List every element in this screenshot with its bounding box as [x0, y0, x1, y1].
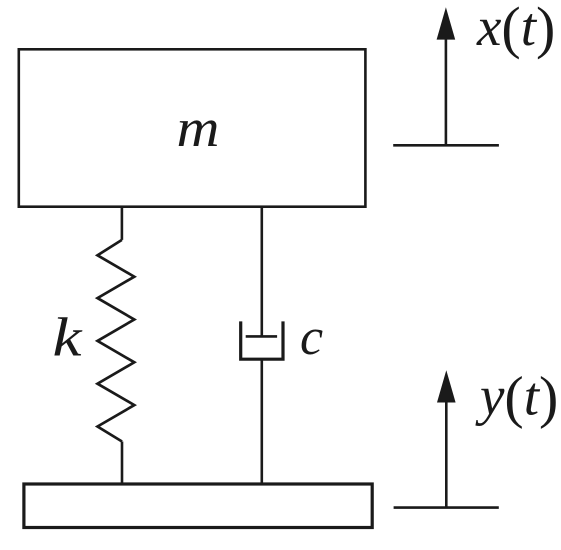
y(t) reference line	[394, 506, 499, 509]
mass block m	[19, 49, 366, 206]
spring k	[98, 240, 135, 442]
y(t) axis arrow	[437, 370, 456, 507]
wire damper bottom	[260, 359, 263, 484]
svg-text:k: k	[53, 307, 84, 368]
damper c cylinder cup	[241, 321, 283, 359]
svg-text:c: c	[300, 309, 323, 366]
x(t) axis arrow	[437, 7, 456, 145]
wire spring bottom	[121, 442, 124, 485]
svg-text:y(t): y(t)	[475, 365, 558, 430]
base (moving support)	[24, 484, 372, 528]
wire spring top	[121, 207, 124, 240]
damper c piston plate	[246, 335, 277, 338]
x(t) reference line	[393, 144, 499, 147]
svg-text:x(t): x(t)	[476, 0, 555, 60]
wire damper top (piston rod)	[260, 207, 263, 337]
svg-text:m: m	[177, 98, 220, 158]
